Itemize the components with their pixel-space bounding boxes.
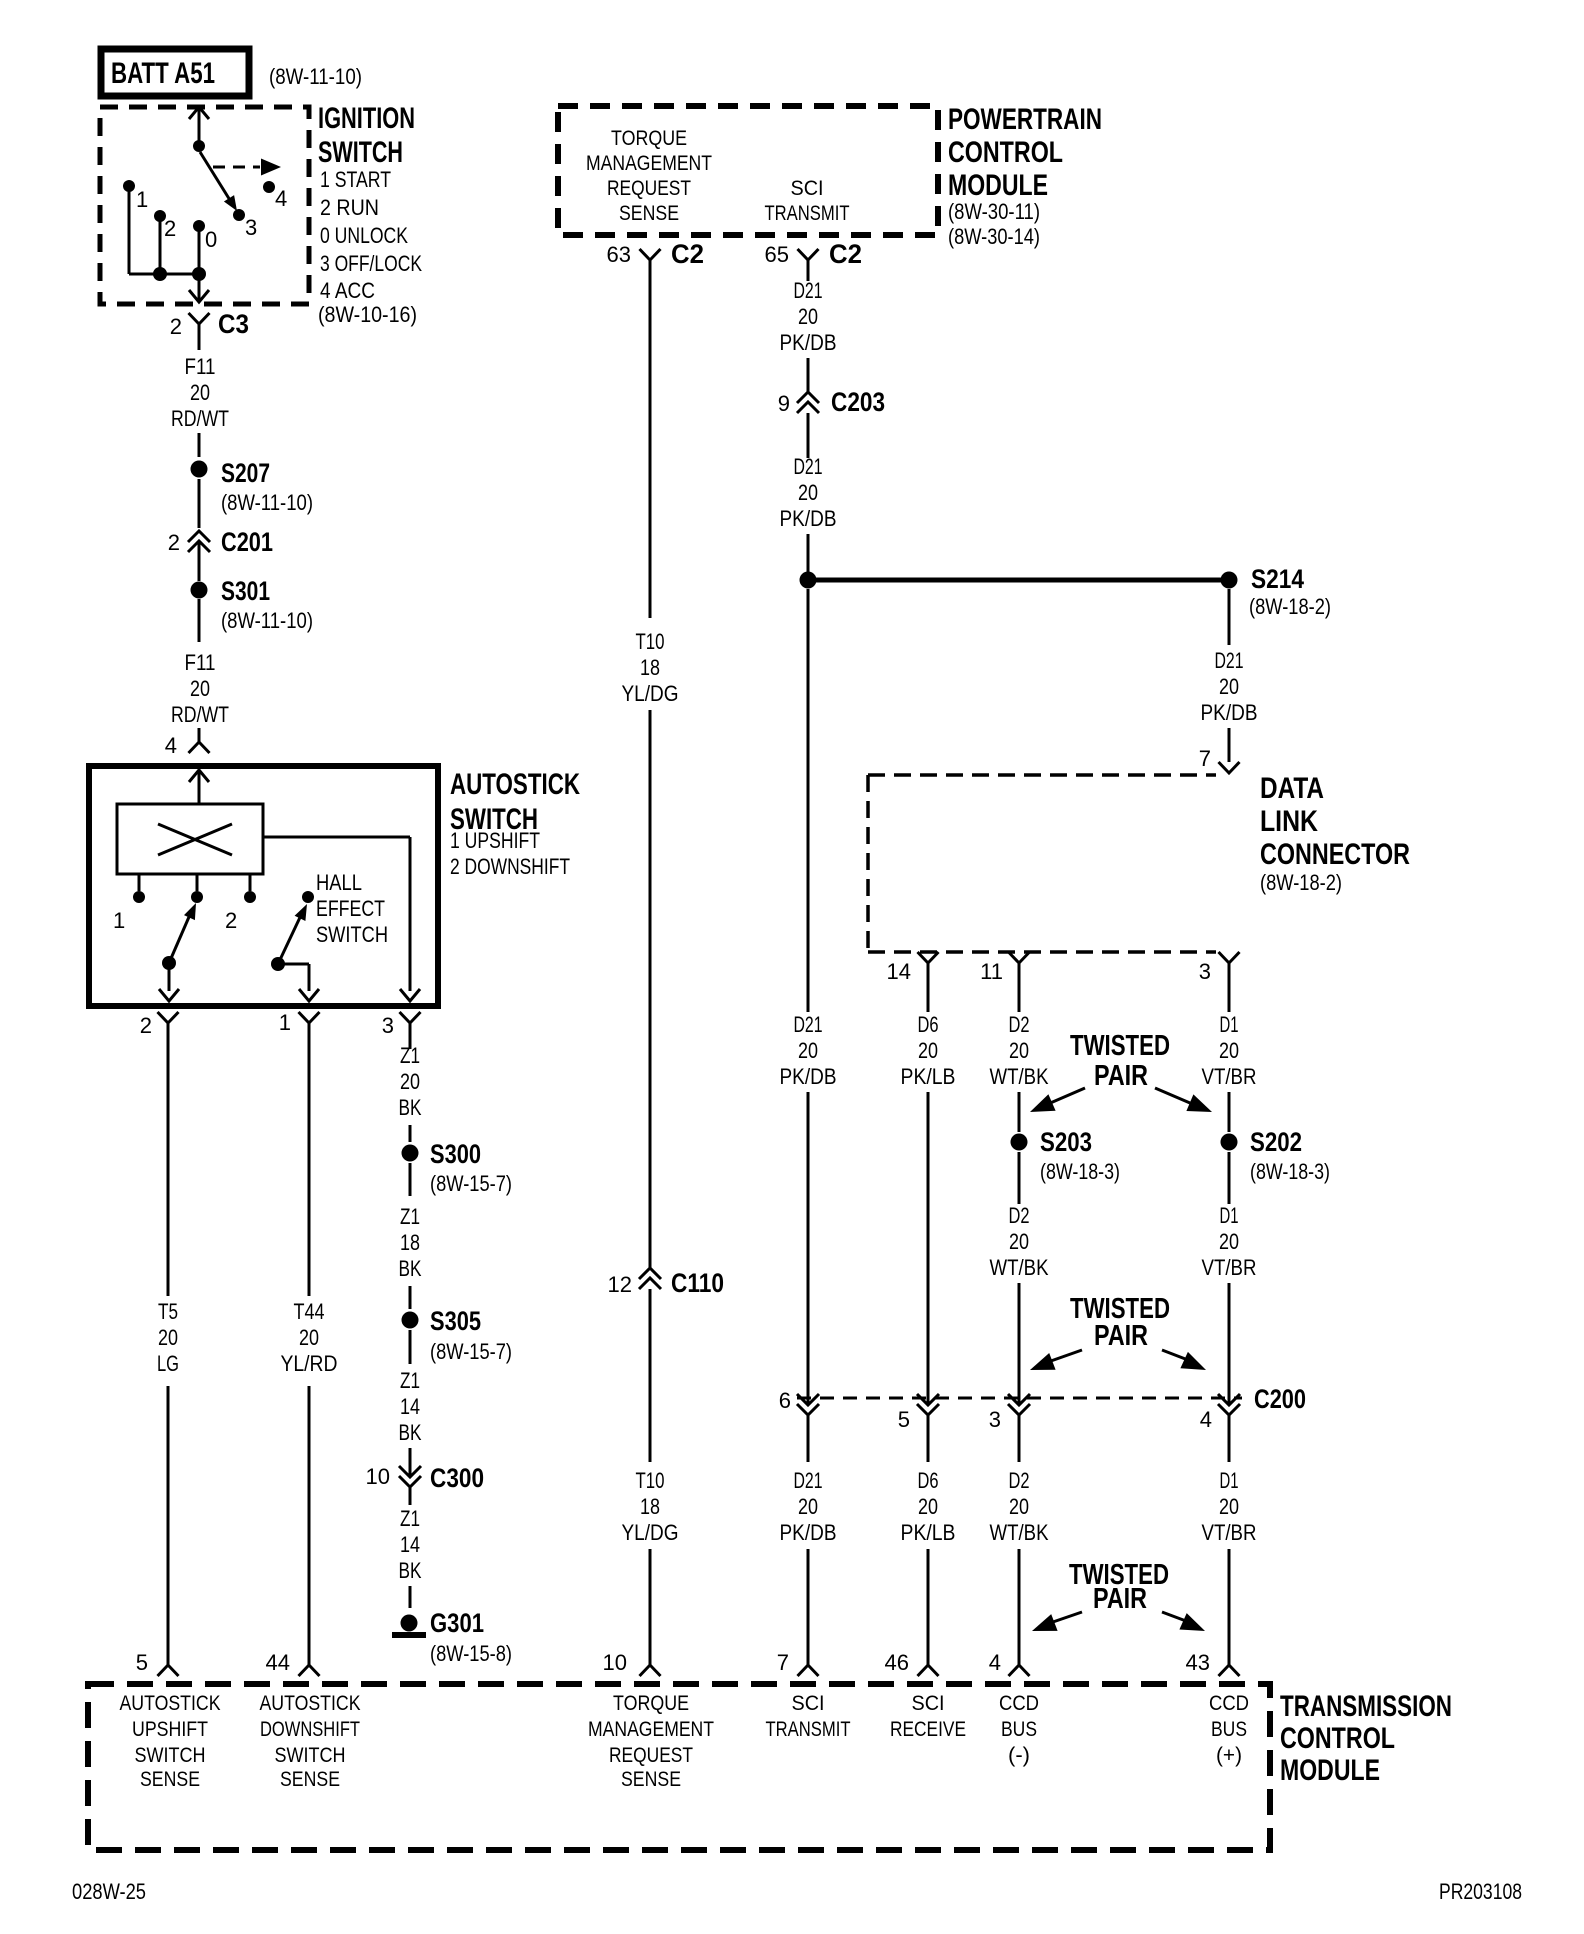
autostick contact module (crossed box) — [117, 804, 263, 874]
wire below junction — [807, 589, 810, 1012]
wire T5 lower segment — [167, 1386, 170, 1665]
svg-text:1 UPSHIFT: 1 UPSHIFT — [450, 828, 540, 853]
svg-text:20: 20 — [1219, 1038, 1239, 1063]
svg-text:D21: D21 — [794, 454, 823, 479]
wire D6 lower segment — [927, 1549, 930, 1665]
svg-text:S301: S301 — [221, 576, 270, 606]
svg-text:POWERTRAIN: POWERTRAIN — [948, 103, 1102, 136]
svg-text:20: 20 — [1009, 1494, 1029, 1519]
svg-text:T10: T10 — [636, 1468, 665, 1493]
svg-text:CCD: CCD — [999, 1692, 1039, 1715]
ignition switch position legend — [318, 167, 422, 327]
autostick pin 3 — [382, 1012, 421, 1049]
ignition switch output wire with arrow — [189, 274, 209, 302]
svg-text:TRANSMIT: TRANSMIT — [766, 1718, 851, 1741]
svg-text:CCD: CCD — [1209, 1692, 1249, 1715]
svg-text:SWITCH: SWITCH — [318, 136, 403, 169]
ground G301 — [392, 1608, 512, 1666]
ignition switch box — [100, 107, 309, 304]
svg-text:D2: D2 — [1009, 1468, 1030, 1493]
wire below C200 pin 5 — [927, 1415, 930, 1462]
splice S301 — [191, 576, 314, 633]
svg-text:S300: S300 — [430, 1139, 481, 1169]
TCM input SCI TRANSMIT — [766, 1692, 851, 1741]
svg-text:WT/BK: WT/BK — [990, 1064, 1049, 1089]
svg-text:PK/DB: PK/DB — [780, 1064, 837, 1089]
svg-text:PK/DB: PK/DB — [780, 330, 837, 355]
DLC pin 7 — [1199, 746, 1240, 773]
svg-text:C2: C2 — [829, 239, 862, 269]
svg-text:14: 14 — [400, 1532, 420, 1557]
svg-text:SENSE: SENSE — [619, 202, 679, 225]
wire segment to C200 pin 3 — [1018, 1283, 1021, 1404]
connector C200 pin 4 — [1200, 1394, 1240, 1432]
svg-text:1 START: 1 START — [320, 167, 391, 192]
TCM pin 4 — [989, 1650, 1030, 1676]
ignition switch header IGNITION SWITCH — [318, 102, 415, 169]
wire below S203 — [1018, 1152, 1021, 1204]
svg-text:AUTOSTICK: AUTOSTICK — [450, 768, 580, 801]
wire below C200 pin 3 — [1018, 1415, 1021, 1462]
wire below S202 — [1228, 1152, 1231, 1204]
wire segment to C200 pin 6 — [807, 1092, 810, 1404]
wire to DLC pin 7 — [1228, 728, 1231, 762]
svg-text:(8W-11-10): (8W-11-10) — [269, 64, 362, 89]
wire segment to S300 — [409, 1125, 412, 1142]
svg-text:18: 18 — [400, 1230, 420, 1255]
TCM header TRANSMISSION CONTROL MODULE — [1280, 1690, 1452, 1787]
ignition switch internal bus wire — [129, 191, 199, 274]
svg-text:C200: C200 — [1254, 1384, 1306, 1414]
svg-text:10: 10 — [603, 1650, 627, 1675]
battery feed box BATT A51 — [101, 49, 249, 96]
svg-text:20: 20 — [1219, 674, 1239, 699]
wire segment to S305 — [409, 1286, 412, 1309]
svg-text:0 UNLOCK: 0 UNLOCK — [320, 223, 408, 248]
svg-text:F11: F11 — [185, 354, 216, 379]
svg-text:PAIR: PAIR — [1093, 1583, 1147, 1615]
svg-text:14: 14 — [887, 959, 911, 984]
svg-text:BK: BK — [399, 1095, 422, 1120]
autostick switch header — [450, 768, 580, 836]
svg-text:YL/DG: YL/DG — [622, 681, 679, 706]
svg-text:S305: S305 — [430, 1306, 481, 1336]
transmission control module box — [88, 1684, 1270, 1850]
splice S203 — [1011, 1127, 1121, 1184]
PCM pin 63 connector C2 — [607, 239, 704, 285]
ignition switch contact 2 — [154, 210, 176, 241]
svg-text:PK/DB: PK/DB — [780, 506, 837, 531]
svg-text:20: 20 — [798, 1038, 818, 1063]
svg-text:20: 20 — [1009, 1229, 1029, 1254]
svg-text:(8W-10-16): (8W-10-16) — [318, 302, 417, 327]
svg-text:S202: S202 — [1250, 1127, 1302, 1157]
svg-text:43: 43 — [1186, 1650, 1210, 1675]
hall effect switch contact — [302, 891, 314, 903]
TCM pin 44 — [266, 1650, 320, 1676]
hall effect switch label — [316, 870, 388, 947]
svg-text:2 DOWNSHIFT: 2 DOWNSHIFT — [450, 854, 570, 879]
svg-text:D21: D21 — [794, 278, 823, 303]
svg-text:PAIR: PAIR — [1094, 1060, 1148, 1092]
svg-text:MANAGEMENT: MANAGEMENT — [588, 1718, 714, 1741]
svg-text:4: 4 — [165, 733, 177, 758]
connector C110 pin 12 — [608, 1268, 661, 1297]
wire below C200 pin 6 — [807, 1415, 810, 1462]
autostick upshift/downshift wiper arm — [162, 903, 196, 970]
svg-text:SENSE: SENSE — [621, 1768, 681, 1791]
wire segment to S202 — [1228, 1092, 1231, 1132]
svg-text:2: 2 — [225, 908, 237, 933]
svg-text:20: 20 — [798, 1494, 818, 1519]
svg-text:C201: C201 — [221, 527, 273, 557]
svg-text:PK/DB: PK/DB — [780, 1520, 837, 1545]
svg-text:6: 6 — [779, 1388, 791, 1413]
hall effect wiper arm — [271, 904, 307, 971]
svg-text:S203: S203 — [1040, 1127, 1092, 1157]
svg-text:EFFECT: EFFECT — [316, 896, 385, 921]
svg-text:(8W-30-14): (8W-30-14) — [948, 224, 1040, 249]
ignition switch contact 4 — [263, 181, 287, 211]
svg-text:PK/DB: PK/DB — [1201, 700, 1258, 725]
svg-text:PAIR: PAIR — [1094, 1320, 1148, 1352]
svg-text:4: 4 — [1200, 1407, 1212, 1432]
autostick switch legend — [450, 828, 570, 879]
connector C201 pin 2 — [168, 530, 210, 555]
svg-text:2: 2 — [168, 530, 180, 555]
svg-text:12: 12 — [608, 1272, 632, 1297]
svg-text:65: 65 — [765, 242, 789, 267]
svg-text:20: 20 — [190, 380, 210, 405]
splice S214 — [1221, 564, 1332, 619]
svg-text:4 ACC: 4 ACC — [320, 278, 375, 303]
ignition switch bus junctions — [153, 267, 206, 281]
svg-text:D2: D2 — [1009, 1203, 1030, 1228]
svg-text:0: 0 — [205, 227, 217, 252]
svg-text:20: 20 — [918, 1494, 938, 1519]
ignition switch rotor arm to position 3 — [200, 152, 237, 211]
DLC pin 11 — [980, 952, 1029, 1012]
svg-text:3 OFF/LOCK: 3 OFF/LOCK — [320, 251, 422, 276]
svg-text:BK: BK — [399, 1420, 422, 1445]
svg-text:C3: C3 — [218, 309, 249, 339]
svg-text:1: 1 — [279, 1010, 291, 1035]
ignition switch pivot contact — [193, 140, 205, 152]
svg-text:WT/BK: WT/BK — [990, 1255, 1049, 1280]
svg-text:10: 10 — [366, 1464, 390, 1489]
PCM output SCI TRANSMIT — [765, 177, 850, 225]
svg-text:T44: T44 — [294, 1299, 325, 1324]
svg-text:VT/BR: VT/BR — [1202, 1255, 1257, 1280]
wire T5 upper segment — [167, 1023, 170, 1296]
DLC header DATA LINK CONNECTOR — [1260, 772, 1410, 895]
svg-text:SENSE: SENSE — [280, 1768, 340, 1791]
svg-text:BUS: BUS — [1211, 1718, 1247, 1741]
svg-text:REQUEST: REQUEST — [607, 177, 691, 200]
wire T10 middle segment — [649, 710, 652, 1268]
autostick switch box — [89, 766, 438, 1006]
TCM input CCD BUS (+) — [1209, 1692, 1249, 1767]
wire below C200 pin 4 — [1228, 1415, 1231, 1462]
svg-text:CONNECTOR: CONNECTOR — [1260, 838, 1410, 871]
svg-text:5: 5 — [898, 1407, 910, 1432]
svg-text:D1: D1 — [1220, 1012, 1239, 1037]
TCM pin 43 — [1186, 1650, 1240, 1676]
splice S305 — [402, 1306, 513, 1364]
twisted pair callout 3 — [1032, 1559, 1205, 1631]
svg-text:SWITCH: SWITCH — [275, 1744, 346, 1767]
wire segment to S207 — [198, 433, 201, 457]
svg-text:20: 20 — [1219, 1229, 1239, 1254]
svg-text:3: 3 — [1199, 959, 1211, 984]
DLC pin 14 — [887, 952, 939, 1012]
svg-text:TORQUE: TORQUE — [613, 1692, 689, 1715]
wire below S214 — [1228, 589, 1231, 645]
svg-text:14: 14 — [400, 1394, 420, 1419]
svg-text:20: 20 — [400, 1069, 420, 1094]
svg-text:D6: D6 — [918, 1012, 939, 1037]
wire D21 lower segment — [807, 1549, 810, 1665]
svg-text:(8W-18-3): (8W-18-3) — [1040, 1159, 1120, 1184]
svg-text:SWITCH: SWITCH — [316, 922, 388, 947]
wire from BATT into ignition switch — [189, 107, 209, 146]
svg-text:(8W-18-2): (8W-18-2) — [1249, 594, 1331, 619]
TCM input SCI RECEIVE — [890, 1692, 966, 1741]
svg-text:(8W-11-10): (8W-11-10) — [221, 608, 313, 633]
svg-text:D2: D2 — [1009, 1012, 1030, 1037]
svg-text:S214: S214 — [1251, 564, 1304, 594]
TCM pin 7 — [777, 1650, 819, 1676]
svg-text:YL/DG: YL/DG — [622, 1520, 679, 1545]
svg-text:20: 20 — [1009, 1038, 1029, 1063]
svg-text:T10: T10 — [636, 629, 665, 654]
svg-text:C300: C300 — [430, 1463, 484, 1493]
svg-text:BK: BK — [399, 1558, 422, 1583]
svg-text:7: 7 — [777, 1650, 789, 1675]
TCM input TORQUE MANAGEMENT REQUEST SENSE — [588, 1692, 714, 1791]
twisted pair callout 1 — [1030, 1030, 1212, 1112]
svg-text:MANAGEMENT: MANAGEMENT — [586, 152, 712, 175]
svg-text:PK/LB: PK/LB — [901, 1064, 956, 1089]
svg-text:CONTROL: CONTROL — [1280, 1722, 1395, 1755]
svg-text:SCI: SCI — [791, 177, 824, 200]
svg-text:D21: D21 — [794, 1468, 823, 1493]
svg-text:3: 3 — [989, 1407, 1001, 1432]
wire below C110 — [649, 1289, 652, 1462]
svg-text:D1: D1 — [1220, 1468, 1239, 1493]
svg-text:LG: LG — [157, 1351, 179, 1376]
svg-text:2: 2 — [170, 314, 182, 339]
PCM pin 65 connector C2 — [765, 239, 862, 281]
svg-text:4: 4 — [275, 186, 287, 211]
svg-text:TORQUE: TORQUE — [611, 127, 687, 150]
svg-text:(8W-11-10): (8W-11-10) — [221, 490, 313, 515]
wire below C203 — [807, 413, 810, 458]
svg-text:20: 20 — [299, 1325, 319, 1350]
svg-text:SCI: SCI — [792, 1692, 825, 1715]
connector C203 pin 9 — [778, 391, 819, 416]
svg-text:WT/BK: WT/BK — [990, 1520, 1049, 1545]
svg-text:VT/BR: VT/BR — [1202, 1064, 1257, 1089]
svg-text:11: 11 — [980, 959, 1003, 984]
wire segment to G301 — [409, 1586, 412, 1608]
wire segment to C200 pin 4 — [1228, 1283, 1231, 1404]
wire from PCM pin 63 — [649, 285, 652, 618]
svg-text:AUTOSTICK: AUTOSTICK — [120, 1692, 221, 1715]
wire D1 lower segment — [1228, 1549, 1231, 1665]
autostick module ground wire — [263, 837, 420, 1001]
connector C200 pin 3 — [989, 1394, 1030, 1432]
svg-text:LINK: LINK — [1260, 805, 1318, 838]
TCM input AUTOSTICK UPSHIFT SWITCH SENSE — [120, 1692, 221, 1791]
svg-text:CONTROL: CONTROL — [948, 136, 1063, 169]
twisted pair callout 2 — [1030, 1293, 1206, 1370]
autostick pin 1 — [279, 1010, 320, 1049]
svg-text:TRANSMISSION: TRANSMISSION — [1280, 1690, 1452, 1723]
wire segment to junction — [807, 534, 810, 572]
TCM input CCD BUS (-) — [999, 1692, 1039, 1767]
svg-text:D21: D21 — [1215, 648, 1244, 673]
connector C3 pin 2 — [170, 313, 210, 350]
wire segment S305 down — [409, 1330, 412, 1364]
svg-text:VT/BR: VT/BR — [1202, 1520, 1257, 1545]
svg-text:F11: F11 — [185, 650, 216, 675]
svg-text:2: 2 — [164, 216, 176, 241]
TCM input AUTOSTICK DOWNSHIFT SWITCH SENSE — [260, 1692, 361, 1791]
svg-text:Z1: Z1 — [400, 1368, 420, 1393]
connector C200 pin 6 — [779, 1388, 819, 1415]
svg-text:RD/WT: RD/WT — [171, 406, 229, 431]
wire segment C201 to S301 — [198, 541, 201, 581]
wire D6 middle segment — [927, 1092, 930, 1404]
svg-text:T5: T5 — [158, 1299, 178, 1324]
wire T44 lower segment — [308, 1386, 311, 1665]
autostick wiper output wire — [159, 963, 179, 1001]
TCM pin 5 — [136, 1650, 179, 1676]
svg-text:(8W-18-3): (8W-18-3) — [1250, 1159, 1330, 1184]
splice S300 — [402, 1139, 513, 1196]
ignition switch travel arrow (dashed) — [213, 159, 281, 176]
svg-text:20: 20 — [798, 304, 818, 329]
autostick switch pin 4 — [165, 728, 210, 758]
wire segment S207 to C201 — [198, 479, 201, 528]
svg-text:SENSE: SENSE — [140, 1768, 200, 1791]
svg-text:C110: C110 — [671, 1268, 724, 1298]
svg-text:IGNITION: IGNITION — [318, 102, 415, 135]
svg-text:Z1: Z1 — [400, 1043, 420, 1068]
svg-text:20: 20 — [918, 1038, 938, 1063]
TCM pin 46 — [885, 1650, 939, 1676]
svg-text:UPSHIFT: UPSHIFT — [132, 1718, 208, 1741]
svg-text:YL/RD: YL/RD — [281, 1351, 338, 1376]
powertrain control module box — [558, 106, 938, 235]
svg-text:20: 20 — [158, 1325, 178, 1350]
data link connector box — [868, 775, 1216, 952]
svg-text:(8W-18-2): (8W-18-2) — [1260, 870, 1342, 895]
svg-text:1: 1 — [136, 187, 148, 212]
svg-text:D21: D21 — [794, 1012, 823, 1037]
svg-text:028W-25: 028W-25 — [72, 1879, 146, 1904]
svg-text:DATA: DATA — [1260, 772, 1324, 805]
wire entering autostick switch — [189, 770, 209, 804]
svg-text:RECEIVE: RECEIVE — [890, 1718, 966, 1741]
svg-text:D6: D6 — [918, 1468, 939, 1493]
connector C200 pin 5 — [898, 1394, 939, 1432]
svg-text:46: 46 — [885, 1650, 909, 1675]
wire D2 lower segment — [1018, 1549, 1021, 1665]
svg-text:3: 3 — [245, 215, 257, 240]
svg-text:RD/WT: RD/WT — [171, 702, 229, 727]
svg-text:9: 9 — [778, 391, 790, 416]
svg-text:BK: BK — [399, 1256, 422, 1281]
connector C200 dashed line — [797, 1397, 1242, 1400]
ignition switch contact 0 — [193, 220, 217, 252]
svg-text:C2: C2 — [671, 239, 704, 269]
svg-text:(8W-15-7): (8W-15-7) — [430, 1171, 512, 1196]
svg-text:44: 44 — [266, 1650, 290, 1675]
svg-text:PK/LB: PK/LB — [901, 1520, 956, 1545]
svg-text:(8W-15-8): (8W-15-8) — [430, 1641, 512, 1666]
svg-text:(8W-30-11): (8W-30-11) — [948, 199, 1040, 224]
junction of SCI transmit branch — [800, 572, 817, 589]
svg-text:Z1: Z1 — [400, 1506, 420, 1531]
svg-text:1: 1 — [113, 908, 125, 933]
splice S207 — [191, 458, 314, 515]
PCM header POWERTRAIN CONTROL MODULE — [948, 103, 1102, 202]
svg-text:BATT A51: BATT A51 — [111, 57, 215, 90]
svg-text:MODULE: MODULE — [948, 169, 1048, 202]
autostick pin 2 — [140, 1012, 179, 1049]
svg-text:20: 20 — [798, 480, 818, 505]
wire T10 lower segment — [649, 1549, 652, 1665]
wire T44 upper segment — [308, 1023, 311, 1296]
hall effect output wire — [278, 964, 319, 1001]
svg-text:5: 5 — [136, 1650, 148, 1675]
svg-text:4: 4 — [989, 1650, 1001, 1675]
svg-text:(-): (-) — [1008, 1744, 1030, 1767]
svg-text:Z1: Z1 — [400, 1204, 420, 1229]
splice S202 — [1221, 1127, 1331, 1184]
PCM output TORQUE MANAGEMENT REQUEST SENSE — [586, 127, 712, 225]
TCM pin 10 — [603, 1650, 661, 1676]
svg-text:C203: C203 — [831, 387, 885, 417]
svg-text:D1: D1 — [1220, 1203, 1239, 1228]
svg-text:SCI: SCI — [912, 1692, 945, 1715]
svg-text:MODULE: MODULE — [1280, 1754, 1380, 1787]
wire segment to C300 — [409, 1448, 412, 1476]
svg-text:TWISTED: TWISTED — [1070, 1030, 1170, 1062]
svg-text:20: 20 — [190, 676, 210, 701]
svg-text:18: 18 — [640, 1494, 660, 1519]
DLC pin 3 — [1199, 952, 1240, 1012]
svg-text:TRANSMIT: TRANSMIT — [765, 202, 850, 225]
svg-text:2: 2 — [140, 1013, 152, 1038]
svg-text:SWITCH: SWITCH — [135, 1744, 206, 1767]
svg-text:63: 63 — [607, 242, 631, 267]
svg-text:G301: G301 — [430, 1608, 484, 1638]
svg-text:2 RUN: 2 RUN — [320, 195, 379, 220]
svg-text:PR203108: PR203108 — [1439, 1879, 1522, 1904]
svg-text:20: 20 — [1219, 1494, 1239, 1519]
svg-text:DOWNSHIFT: DOWNSHIFT — [260, 1718, 360, 1741]
autostick module stub common — [191, 874, 203, 903]
PCM references — [948, 199, 1040, 249]
wire segment to C203 — [807, 358, 810, 392]
wire segment S301 down — [198, 599, 201, 642]
svg-text:(8W-15-7): (8W-15-7) — [430, 1339, 512, 1364]
wire segment to S203 — [1018, 1092, 1021, 1132]
svg-text:REQUEST: REQUEST — [609, 1744, 693, 1767]
